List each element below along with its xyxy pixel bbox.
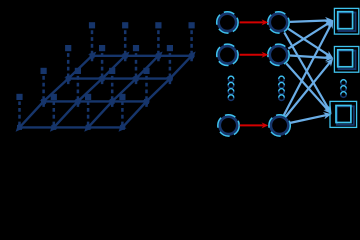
spin stalk r2c0 (67, 53, 70, 85)
node site r1c1 (75, 99, 80, 104)
spin square r1c0 (41, 68, 47, 74)
node site r1c0 (41, 99, 46, 104)
spin square r0c1 (51, 94, 57, 100)
arrowhead r1c2 (108, 95, 119, 106)
spin square r3c2 (155, 22, 161, 28)
arrowhead r3c2 (154, 49, 165, 60)
arrowhead r2c2 (132, 72, 143, 83)
vertical ellipsis middle column (279, 76, 285, 100)
wire column 0 (20, 56, 93, 128)
spin stalk r0c3 (121, 101, 124, 125)
spin stalk r1c0 (42, 75, 45, 107)
arrowhead r0c2 (82, 123, 93, 134)
spin stalk r3c1 (124, 30, 127, 62)
spin square r1c1 (75, 68, 81, 74)
node site r3c2 (156, 53, 161, 58)
weight line h1 to out1 (290, 17, 333, 25)
arrowhead r3c0 (88, 49, 99, 60)
wire column 3 (122, 56, 191, 128)
neuron circle hidden h1 (268, 12, 289, 33)
wire row 0 (17, 126, 125, 128)
spin stalk r2c1 (101, 53, 104, 85)
weight line h3 to out2 (286, 56, 336, 116)
spin stalk r3c2 (157, 30, 160, 62)
spin stalk r2c2 (135, 53, 138, 85)
spin stalk r1c3 (145, 75, 148, 107)
node site r0c2 (86, 125, 91, 130)
arrowhead r0c0 (13, 123, 24, 134)
neuron circle hidden h2 (268, 44, 289, 65)
output square s2 (334, 47, 358, 73)
spin square r3c0 (89, 22, 95, 28)
node site r2c3 (167, 76, 172, 81)
spin square r2c1 (99, 45, 105, 51)
spin stalk r0c1 (53, 101, 56, 125)
figure: spin lattice mapped to neural network (0, 0, 360, 138)
node site r2c2 (134, 76, 139, 81)
arrowhead r1c0 (39, 95, 50, 106)
spin square r2c0 (65, 45, 71, 51)
wire column 2 (88, 56, 158, 128)
wire row 3 (90, 55, 195, 57)
spin square r3c3 (189, 22, 195, 28)
spin stalk r3c3 (190, 30, 193, 62)
neuron circle visible v3 (218, 115, 239, 136)
arrowhead r3c3 (187, 49, 198, 60)
red coupling arrow row 2 (240, 52, 269, 58)
red coupling arrow row 3 (240, 122, 269, 128)
spin square r1c3 (143, 68, 149, 74)
node site r3c3 (189, 53, 194, 58)
node site r0c1 (51, 125, 56, 130)
node site r0c3 (120, 125, 125, 130)
arrowhead r0c1 (47, 123, 58, 134)
vertical ellipsis output column (341, 80, 347, 98)
weight line h2 to out1 (288, 17, 335, 49)
spin square r3c1 (122, 22, 128, 28)
spin square r1c2 (109, 68, 115, 74)
spin square r2c3 (167, 45, 173, 51)
wire row 2 (66, 77, 173, 79)
output square s1 (334, 8, 358, 34)
spin square r0c2 (85, 94, 91, 100)
weight line h1 to out2 (288, 29, 335, 62)
neuron circle visible v2 (217, 44, 238, 65)
arrowhead r1c1 (74, 95, 85, 106)
arrowhead r2c0 (64, 72, 75, 83)
arrowhead r2c3 (166, 72, 177, 83)
wire column 1 (54, 56, 125, 128)
spin square r0c3 (119, 94, 125, 100)
spin stalk r0c2 (87, 101, 90, 125)
weight line h3 to out1 (284, 19, 337, 116)
weight line h2 to out3 (286, 63, 334, 116)
spin stalk r1c2 (111, 75, 114, 107)
neuron circle visible v1 (217, 12, 238, 33)
node site r0c0 (17, 125, 22, 130)
weight line h2 to out2 (290, 54, 333, 62)
arrowhead r2c1 (98, 72, 109, 83)
node site r1c2 (110, 99, 115, 104)
node site r3c0 (90, 53, 95, 58)
spin stalk r3c0 (91, 30, 94, 62)
wire row 1 (41, 100, 149, 102)
node site r3c1 (123, 53, 128, 58)
neuron circle hidden h3 (269, 115, 290, 136)
node site r2c1 (100, 76, 105, 81)
spin square r2c2 (133, 45, 139, 51)
node site r2c0 (66, 76, 71, 81)
node site r1c3 (144, 99, 149, 104)
spin stalk r1c1 (77, 75, 80, 107)
vertical ellipsis left column (228, 76, 234, 100)
weight line h1 to out3 (284, 32, 334, 115)
weight line h3 to out3 (290, 110, 333, 123)
arrowhead r1c3 (142, 95, 153, 106)
spin stalk r0c0 (18, 101, 21, 125)
output square s3 (330, 101, 357, 127)
spin square r0c0 (16, 94, 22, 100)
arrowhead r3c1 (121, 49, 132, 60)
arrowhead r0c3 (116, 123, 127, 134)
red coupling arrow row 1 (240, 19, 269, 25)
spin stalk r2c3 (169, 53, 172, 85)
